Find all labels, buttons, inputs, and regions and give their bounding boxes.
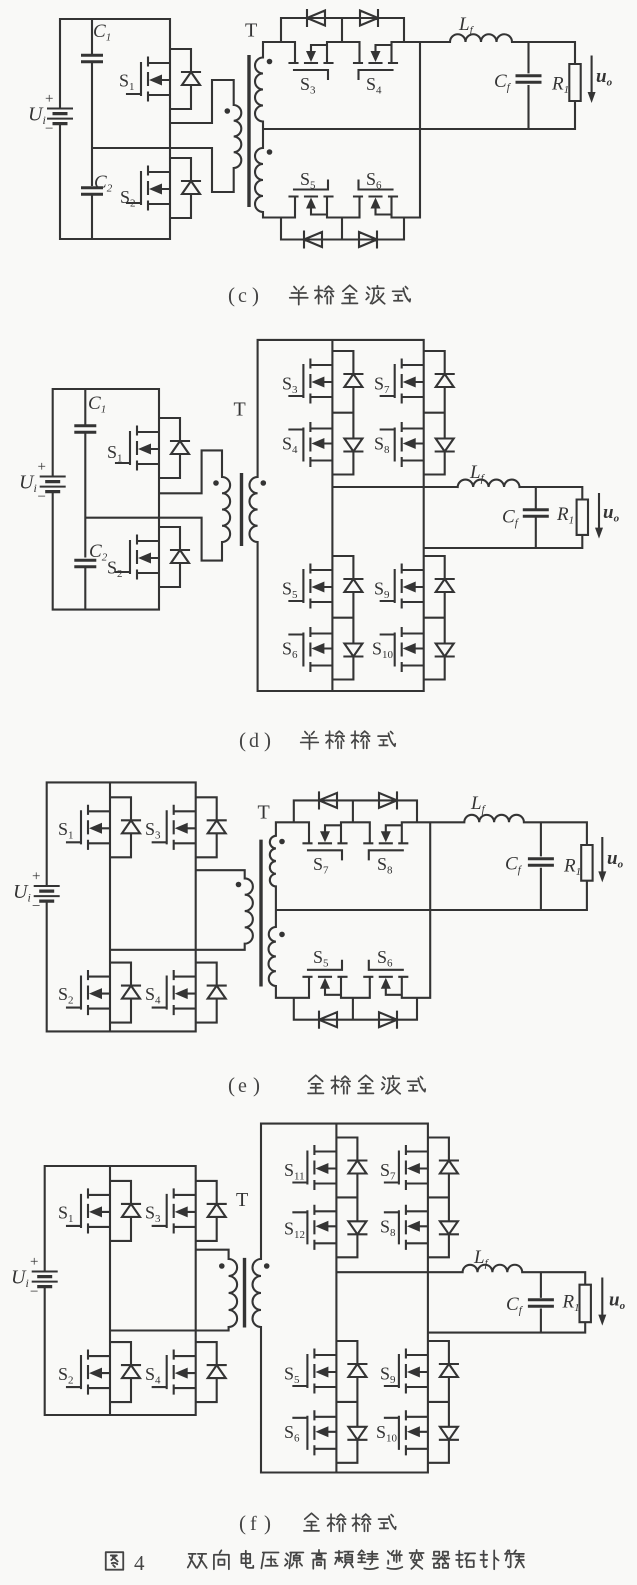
svg-text:+: + xyxy=(32,869,40,885)
svg-text:T: T xyxy=(258,802,270,824)
svg-text:): ) xyxy=(253,1073,260,1097)
svg-text:(: ( xyxy=(228,283,235,307)
svg-text:−: − xyxy=(38,489,46,505)
svg-text:d: d xyxy=(249,730,259,752)
svg-text:f: f xyxy=(250,1513,257,1535)
svg-text:): ) xyxy=(264,1511,271,1535)
svg-text:−: − xyxy=(32,899,40,915)
svg-text:): ) xyxy=(264,728,271,752)
svg-text:T: T xyxy=(245,20,257,42)
svg-text:T: T xyxy=(236,1189,248,1211)
svg-text:4: 4 xyxy=(134,1551,145,1575)
svg-text:(: ( xyxy=(228,1073,235,1097)
svg-text:): ) xyxy=(252,283,259,307)
svg-text:−: − xyxy=(45,121,53,137)
svg-text:−: − xyxy=(30,1284,38,1300)
svg-text:+: + xyxy=(45,91,53,107)
svg-text:+: + xyxy=(30,1254,38,1270)
svg-text:+: + xyxy=(38,459,46,475)
svg-text:(: ( xyxy=(239,728,246,752)
svg-text:c: c xyxy=(238,285,247,307)
svg-text:e: e xyxy=(238,1075,247,1097)
svg-text:(: ( xyxy=(239,1511,246,1535)
svg-text:T: T xyxy=(234,399,246,421)
